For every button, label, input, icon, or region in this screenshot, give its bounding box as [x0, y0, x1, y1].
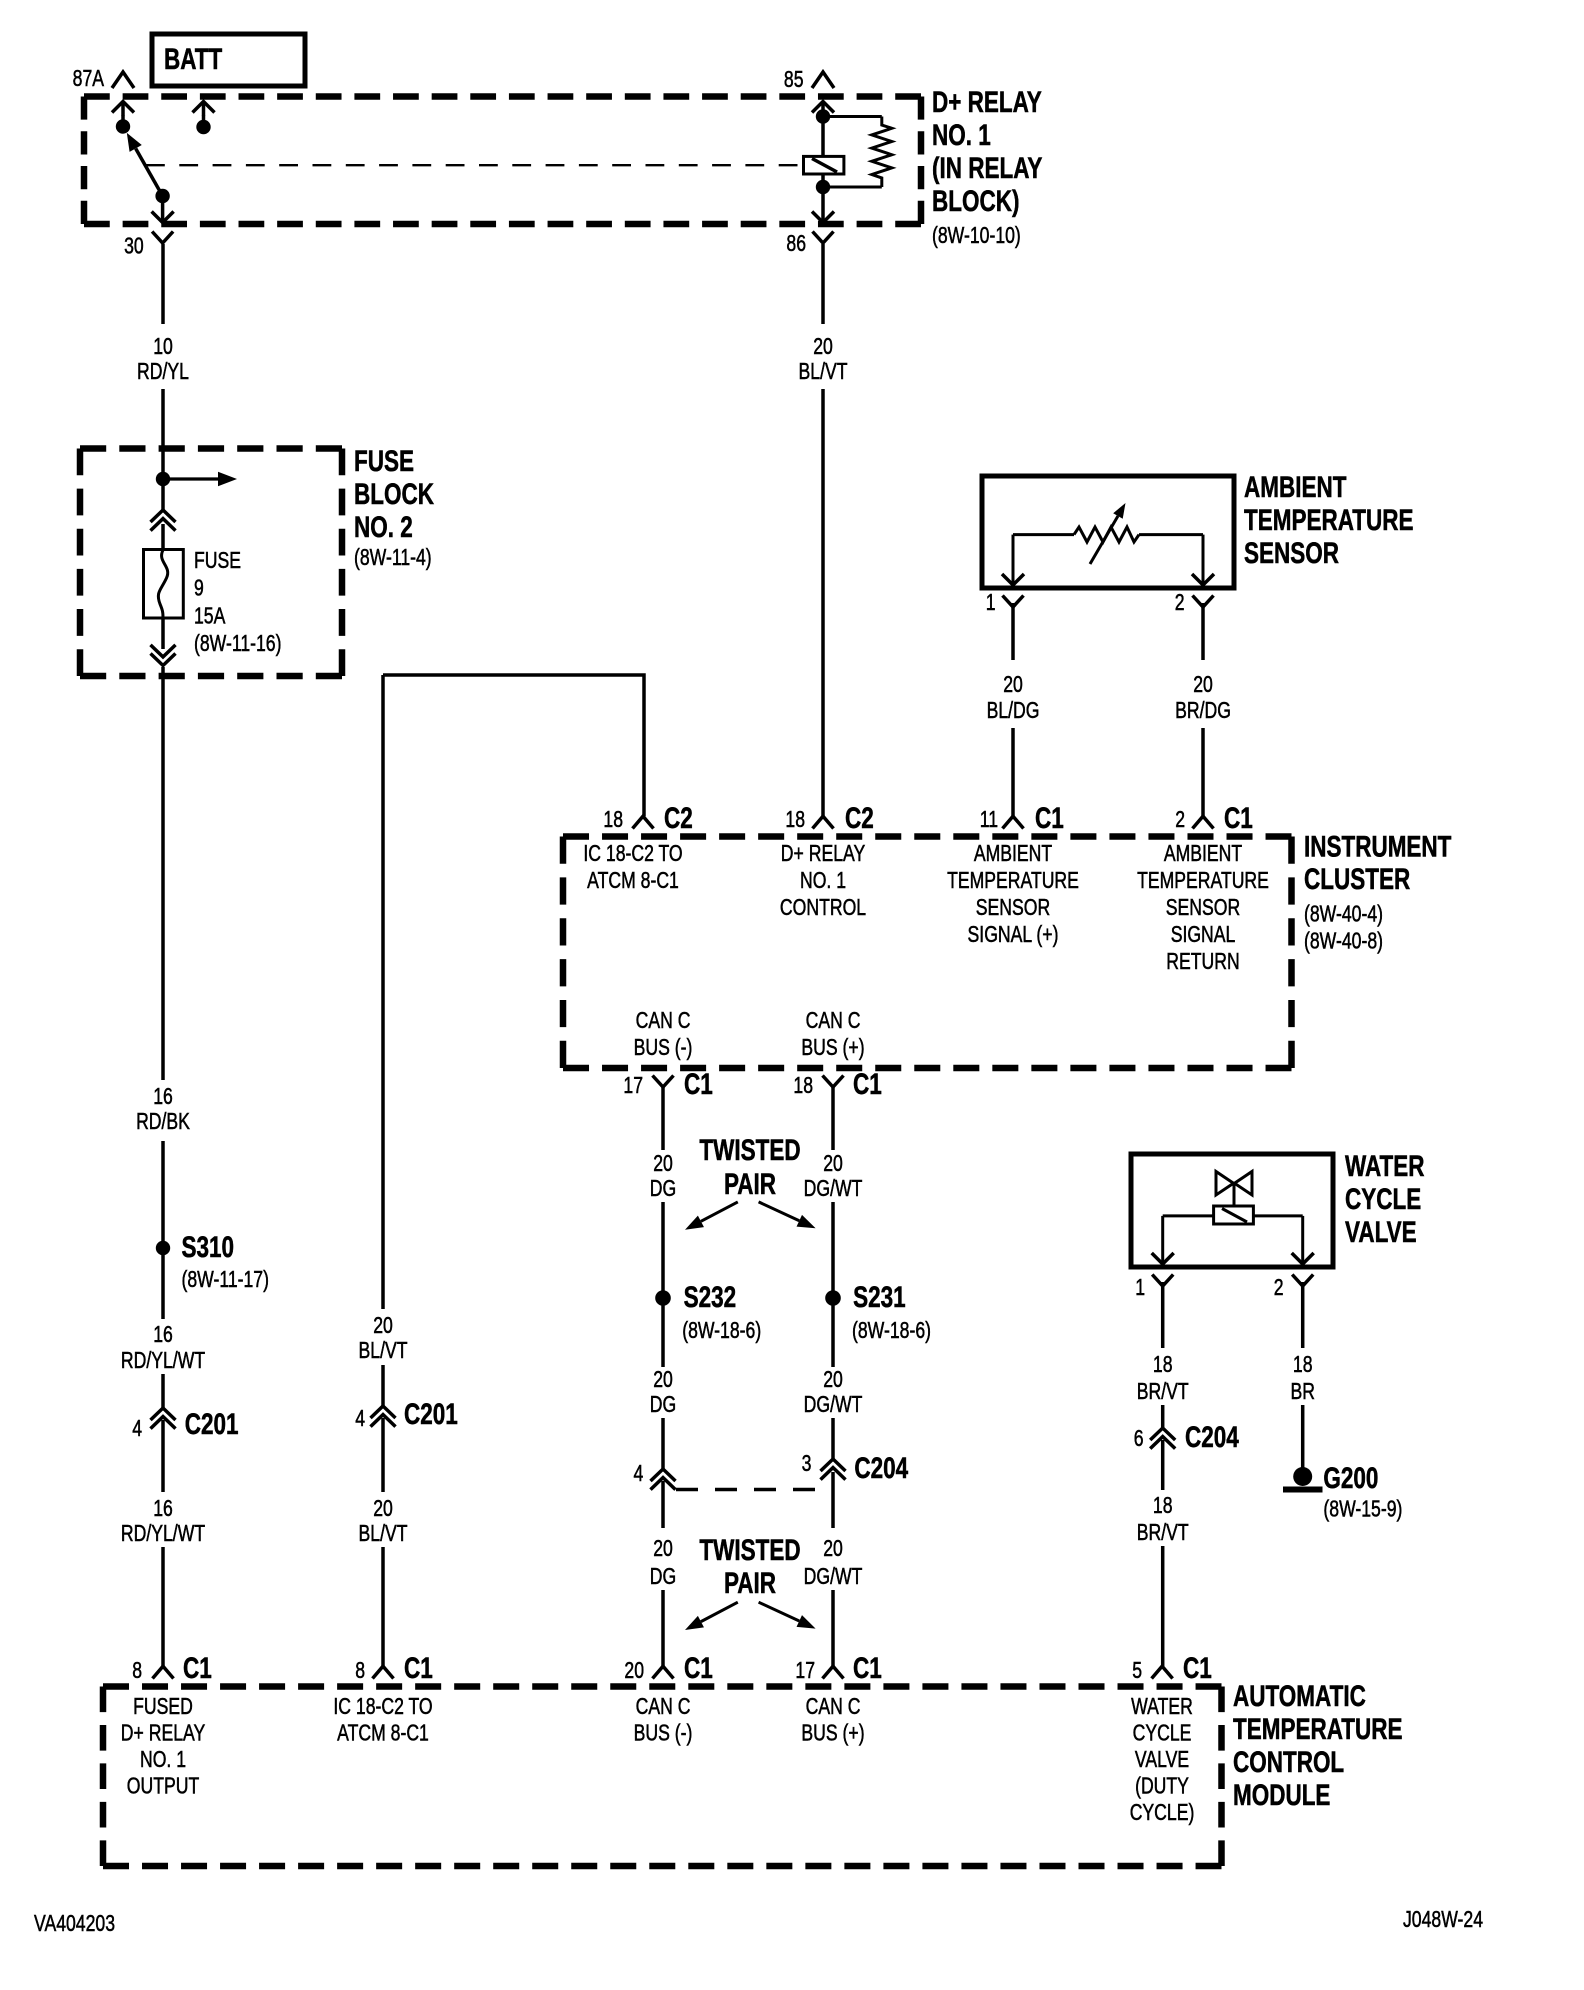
svg-text:BATT: BATT: [164, 42, 222, 76]
svg-text:DG/WT: DG/WT: [804, 1392, 863, 1418]
svg-text:AUTOMATIC: AUTOMATIC: [1233, 1679, 1366, 1713]
svg-text:RETURN: RETURN: [1166, 949, 1239, 975]
svg-text:2: 2: [1175, 590, 1185, 616]
svg-text:20: 20: [1003, 672, 1023, 698]
svg-text:SENSOR: SENSOR: [1166, 895, 1240, 921]
svg-text:FUSE: FUSE: [194, 548, 241, 574]
svg-text:5: 5: [1132, 1658, 1142, 1684]
svg-text:2: 2: [1175, 807, 1185, 833]
svg-text:PAIR: PAIR: [724, 1566, 776, 1600]
svg-text:BUS (-): BUS (-): [634, 1035, 693, 1061]
svg-text:C1: C1: [404, 1651, 433, 1685]
svg-text:BL/DG: BL/DG: [987, 698, 1040, 724]
svg-text:BR/VT: BR/VT: [1137, 1379, 1189, 1405]
svg-text:85: 85: [784, 67, 804, 93]
svg-text:18: 18: [603, 807, 623, 833]
svg-text:TEMPERATURE: TEMPERATURE: [1244, 503, 1413, 537]
svg-text:NO. 1: NO. 1: [932, 118, 991, 152]
svg-text:CYCLE): CYCLE): [1130, 1800, 1195, 1826]
svg-text:ATCM 8-C1: ATCM 8-C1: [587, 868, 679, 894]
svg-text:(IN RELAY: (IN RELAY: [932, 151, 1043, 185]
svg-text:SIGNAL (+): SIGNAL (+): [968, 922, 1059, 948]
svg-text:RD/YL/WT: RD/YL/WT: [121, 1348, 205, 1374]
svg-text:18: 18: [1153, 1493, 1173, 1519]
svg-text:J048W-24: J048W-24: [1403, 1907, 1483, 1933]
svg-text:20: 20: [823, 1151, 843, 1177]
svg-text:BR/VT: BR/VT: [1137, 1520, 1189, 1546]
svg-text:20: 20: [653, 1151, 673, 1177]
svg-text:TEMPERATURE: TEMPERATURE: [1233, 1712, 1402, 1746]
svg-text:C1: C1: [1183, 1651, 1212, 1685]
svg-text:S310: S310: [182, 1230, 235, 1264]
svg-text:87A: 87A: [73, 66, 104, 92]
svg-text:20: 20: [823, 1536, 843, 1562]
svg-text:WATER: WATER: [1131, 1694, 1193, 1720]
svg-text:30: 30: [124, 233, 144, 259]
svg-text:(8W-40-8): (8W-40-8): [1304, 928, 1383, 954]
svg-text:BL/VT: BL/VT: [799, 359, 848, 385]
svg-text:C204: C204: [1185, 1420, 1239, 1454]
svg-text:WATER: WATER: [1345, 1149, 1425, 1183]
svg-text:C1: C1: [1224, 801, 1253, 835]
svg-text:D+ RELAY: D+ RELAY: [932, 85, 1042, 119]
svg-text:(8W-11-16): (8W-11-16): [194, 631, 281, 657]
svg-text:DG: DG: [650, 1564, 676, 1590]
svg-text:17: 17: [623, 1073, 643, 1099]
svg-text:C2: C2: [845, 801, 874, 835]
svg-text:C201: C201: [404, 1397, 458, 1431]
svg-text:AMBIENT: AMBIENT: [1244, 470, 1346, 504]
svg-text:20: 20: [653, 1367, 673, 1393]
svg-text:C1: C1: [853, 1651, 882, 1685]
svg-text:D+ RELAY: D+ RELAY: [121, 1720, 206, 1746]
svg-text:ATCM 8-C1: ATCM 8-C1: [337, 1720, 429, 1746]
svg-text:CAN C: CAN C: [636, 1694, 691, 1720]
svg-text:20: 20: [653, 1536, 673, 1562]
svg-text:VALVE: VALVE: [1135, 1747, 1189, 1773]
svg-text:(8W-18-6): (8W-18-6): [682, 1318, 761, 1344]
svg-text:11: 11: [980, 807, 998, 833]
svg-text:C1: C1: [183, 1651, 212, 1685]
svg-text:BL/VT: BL/VT: [359, 1338, 408, 1364]
svg-text:CONTROL: CONTROL: [1233, 1745, 1344, 1779]
svg-text:DG: DG: [650, 1392, 676, 1418]
svg-text:86: 86: [786, 231, 806, 257]
svg-text:TWISTED: TWISTED: [699, 1133, 800, 1167]
svg-text:G200: G200: [1323, 1461, 1378, 1495]
svg-text:C204: C204: [854, 1451, 908, 1485]
svg-text:FUSED: FUSED: [133, 1694, 193, 1720]
svg-text:16: 16: [153, 1496, 173, 1522]
svg-text:20: 20: [813, 334, 833, 360]
svg-text:6: 6: [1134, 1426, 1144, 1452]
svg-text:BLOCK): BLOCK): [932, 184, 1019, 218]
svg-text:4: 4: [132, 1416, 142, 1442]
svg-text:PAIR: PAIR: [724, 1167, 776, 1201]
svg-text:(8W-18-6): (8W-18-6): [852, 1318, 931, 1344]
svg-text:DG/WT: DG/WT: [804, 1564, 863, 1590]
svg-text:8: 8: [132, 1658, 142, 1684]
svg-text:CYCLE: CYCLE: [1345, 1182, 1421, 1216]
svg-text:TWISTED: TWISTED: [699, 1533, 800, 1567]
svg-text:18: 18: [785, 807, 805, 833]
svg-text:C1: C1: [853, 1067, 882, 1101]
svg-text:16: 16: [153, 1084, 173, 1110]
svg-text:D+ RELAY: D+ RELAY: [781, 841, 866, 867]
svg-text:16: 16: [153, 1322, 173, 1348]
svg-text:BL/VT: BL/VT: [359, 1521, 408, 1547]
svg-text:(8W-10-10): (8W-10-10): [932, 223, 1021, 249]
svg-text:(8W-15-9): (8W-15-9): [1323, 1496, 1402, 1522]
svg-text:SENSOR: SENSOR: [976, 895, 1050, 921]
svg-text:20: 20: [373, 1496, 393, 1522]
svg-text:CLUSTER: CLUSTER: [1304, 862, 1410, 896]
svg-text:4: 4: [355, 1406, 365, 1432]
svg-text:OUTPUT: OUTPUT: [127, 1773, 200, 1799]
svg-text:TEMPERATURE: TEMPERATURE: [1137, 868, 1269, 894]
svg-text:15A: 15A: [194, 603, 225, 629]
svg-text:17: 17: [795, 1658, 815, 1684]
svg-text:1: 1: [1135, 1275, 1145, 1301]
svg-text:S231: S231: [853, 1280, 906, 1314]
svg-text:BUS (-): BUS (-): [634, 1720, 693, 1746]
svg-text:IC 18-C2 TO: IC 18-C2 TO: [583, 841, 682, 867]
svg-text:3: 3: [802, 1451, 812, 1477]
svg-text:BR: BR: [1290, 1379, 1314, 1405]
svg-text:SIGNAL: SIGNAL: [1171, 922, 1236, 948]
svg-text:20: 20: [823, 1367, 843, 1393]
svg-text:18: 18: [1153, 1352, 1173, 1378]
svg-text:CONTROL: CONTROL: [780, 895, 866, 921]
svg-text:C1: C1: [1035, 801, 1064, 835]
svg-text:(8W-11-17): (8W-11-17): [182, 1267, 269, 1293]
svg-text:BUS (+): BUS (+): [801, 1035, 864, 1061]
svg-text:C1: C1: [684, 1067, 713, 1101]
svg-text:4: 4: [633, 1461, 643, 1487]
svg-text:9: 9: [194, 575, 204, 601]
svg-text:S232: S232: [684, 1280, 737, 1314]
svg-text:20: 20: [624, 1658, 644, 1684]
svg-text:VA404203: VA404203: [34, 1911, 115, 1937]
svg-text:AMBIENT: AMBIENT: [1164, 841, 1243, 867]
svg-text:SENSOR: SENSOR: [1244, 536, 1339, 570]
svg-text:18: 18: [1293, 1352, 1313, 1378]
svg-text:CYCLE: CYCLE: [1133, 1720, 1192, 1746]
svg-text:(DUTY: (DUTY: [1135, 1773, 1189, 1799]
svg-text:CAN C: CAN C: [806, 1694, 861, 1720]
svg-text:1: 1: [986, 590, 996, 616]
svg-text:20: 20: [1193, 672, 1213, 698]
svg-text:C1: C1: [684, 1651, 713, 1685]
svg-text:20: 20: [373, 1313, 393, 1339]
svg-text:10: 10: [153, 334, 173, 360]
svg-text:DG: DG: [650, 1176, 676, 1202]
svg-text:IC 18-C2 TO: IC 18-C2 TO: [333, 1694, 432, 1720]
svg-text:(8W-11-4): (8W-11-4): [354, 545, 432, 571]
svg-text:BR/DG: BR/DG: [1175, 698, 1231, 724]
svg-text:VALVE: VALVE: [1345, 1215, 1417, 1249]
svg-text:NO. 2: NO. 2: [354, 510, 413, 544]
svg-text:2: 2: [1274, 1275, 1284, 1301]
svg-text:AMBIENT: AMBIENT: [974, 841, 1053, 867]
svg-text:INSTRUMENT: INSTRUMENT: [1304, 829, 1451, 863]
svg-text:C2: C2: [664, 801, 693, 835]
svg-text:RD/BK: RD/BK: [136, 1109, 190, 1135]
svg-text:CAN C: CAN C: [806, 1008, 861, 1034]
svg-text:RD/YL/WT: RD/YL/WT: [121, 1521, 205, 1547]
svg-text:FUSE: FUSE: [354, 444, 414, 478]
svg-text:RD/YL: RD/YL: [137, 359, 189, 385]
svg-text:(8W-40-4): (8W-40-4): [1304, 901, 1383, 927]
svg-text:8: 8: [355, 1658, 365, 1684]
svg-text:NO. 1: NO. 1: [140, 1747, 186, 1773]
svg-text:DG/WT: DG/WT: [804, 1176, 863, 1202]
svg-text:TEMPERATURE: TEMPERATURE: [947, 868, 1079, 894]
svg-text:BUS (+): BUS (+): [801, 1720, 864, 1746]
svg-text:18: 18: [793, 1073, 813, 1099]
svg-text:NO. 1: NO. 1: [800, 868, 846, 894]
svg-text:CAN C: CAN C: [636, 1008, 691, 1034]
svg-text:MODULE: MODULE: [1233, 1778, 1330, 1812]
svg-text:BLOCK: BLOCK: [354, 477, 434, 511]
svg-text:C201: C201: [185, 1407, 239, 1441]
